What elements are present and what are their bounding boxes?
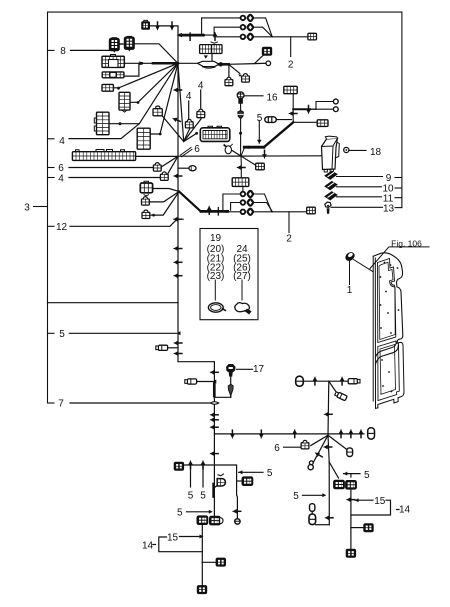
svg-text:16: 16 <box>266 92 278 103</box>
svg-text:7: 7 <box>58 399 64 410</box>
svg-text:19: 19 <box>210 233 222 244</box>
svg-text:3: 3 <box>24 202 30 213</box>
svg-text:5: 5 <box>293 491 299 502</box>
svg-text:2: 2 <box>286 234 292 245</box>
svg-text:5: 5 <box>177 508 183 519</box>
svg-text:5: 5 <box>364 470 370 481</box>
svg-text:18: 18 <box>370 147 382 158</box>
svg-text:4: 4 <box>58 174 64 185</box>
svg-text:(23): (23) <box>207 271 225 282</box>
svg-text:9: 9 <box>386 173 392 184</box>
svg-text:1: 1 <box>347 285 353 296</box>
svg-text:4: 4 <box>186 91 192 102</box>
svg-text:13: 13 <box>383 203 395 214</box>
svg-text:2: 2 <box>288 60 294 71</box>
svg-text:4: 4 <box>59 136 65 147</box>
svg-text:6: 6 <box>194 144 200 155</box>
svg-text:17: 17 <box>253 364 265 375</box>
svg-text:15: 15 <box>374 496 386 507</box>
svg-text:6: 6 <box>274 443 280 454</box>
svg-text:15: 15 <box>167 532 179 543</box>
svg-text:14: 14 <box>142 540 154 551</box>
svg-text:14: 14 <box>399 505 411 516</box>
svg-text:8: 8 <box>60 46 66 57</box>
svg-text:5: 5 <box>59 329 65 340</box>
svg-text:5: 5 <box>267 468 273 479</box>
svg-text:12: 12 <box>56 222 68 233</box>
svg-text:5: 5 <box>188 490 194 501</box>
svg-text:5: 5 <box>200 490 206 501</box>
svg-text:(27): (27) <box>233 271 251 282</box>
